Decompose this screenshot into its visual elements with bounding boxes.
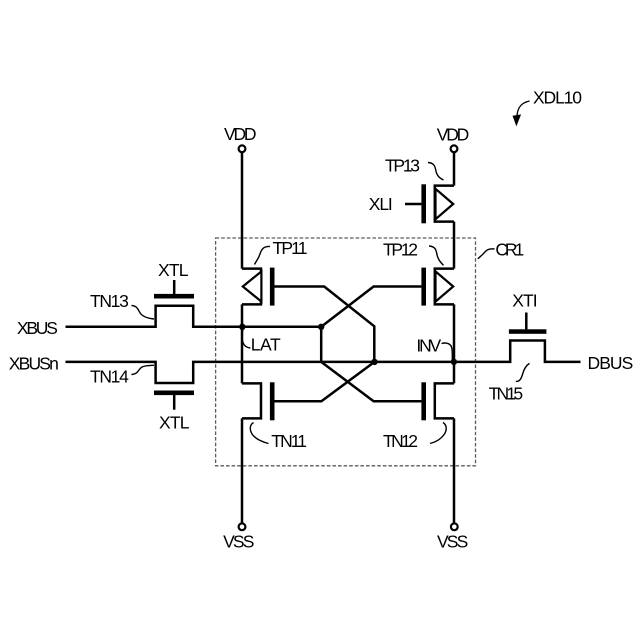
svg-text:VSS: VSS (223, 531, 254, 551)
svg-text:VDD: VDD (224, 124, 257, 144)
svg-text:TN14: TN14 (90, 367, 129, 387)
svg-text:VSS: VSS (437, 531, 468, 551)
svg-text:VDD: VDD (437, 124, 470, 144)
svg-text:LAT: LAT (251, 335, 281, 355)
svg-text:XTI: XTI (512, 291, 537, 311)
svg-text:TP11: TP11 (273, 238, 308, 258)
svg-text:TN11: TN11 (271, 431, 307, 451)
svg-text:DBUS: DBUS (588, 353, 634, 373)
svg-text:TN13: TN13 (90, 291, 129, 311)
svg-text:XLI: XLI (369, 194, 393, 214)
svg-text:XTL: XTL (159, 412, 190, 432)
svg-text:XTL: XTL (158, 260, 189, 280)
svg-text:TN15: TN15 (489, 383, 523, 403)
svg-text:TP13: TP13 (385, 156, 420, 176)
svg-text:XBUSn: XBUSn (9, 354, 59, 374)
svg-text:INV: INV (416, 335, 441, 355)
svg-text:TP12: TP12 (383, 240, 418, 260)
svg-text:CR1: CR1 (495, 240, 524, 260)
svg-text:TN12: TN12 (383, 431, 418, 451)
svg-text:XBUS: XBUS (17, 318, 58, 338)
svg-text:XDL10: XDL10 (533, 88, 582, 108)
